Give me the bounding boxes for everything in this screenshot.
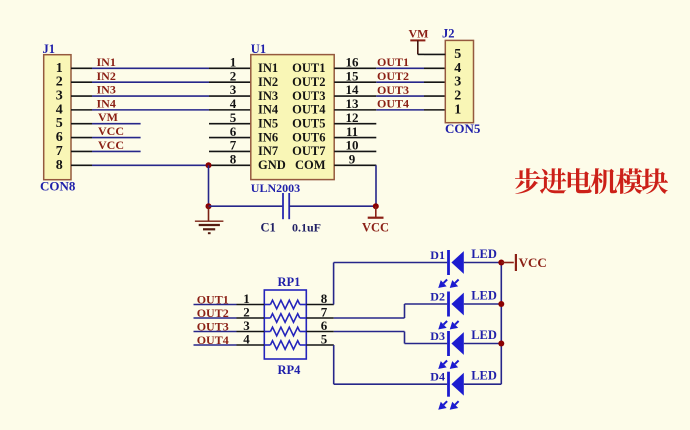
svg-text:OUT7: OUT7 [292, 144, 325, 158]
svg-text:RP1: RP1 [278, 275, 301, 289]
svg-text:OUT1: OUT1 [292, 61, 325, 75]
svg-text:4: 4 [230, 96, 237, 111]
svg-text:OUT3: OUT3 [377, 83, 409, 97]
svg-text:D3: D3 [430, 329, 445, 343]
svg-text:OUT1: OUT1 [197, 292, 229, 306]
svg-text:VCC: VCC [98, 124, 124, 138]
svg-text:IN5: IN5 [258, 117, 278, 131]
svg-text:VM: VM [409, 27, 429, 41]
svg-text:IN4: IN4 [97, 96, 116, 110]
svg-text:6: 6 [56, 130, 63, 145]
svg-text:CON8: CON8 [40, 179, 76, 194]
svg-text:LED: LED [471, 247, 497, 261]
svg-text:GND: GND [258, 158, 286, 172]
svg-text:IN6: IN6 [258, 130, 278, 144]
svg-text:5: 5 [454, 47, 461, 62]
svg-text:OUT1: OUT1 [377, 55, 409, 69]
svg-text:8: 8 [56, 158, 63, 173]
svg-text:5: 5 [230, 110, 237, 125]
svg-text:0.1uF: 0.1uF [292, 220, 321, 234]
svg-text:15: 15 [346, 68, 360, 83]
svg-text:IN1: IN1 [258, 61, 278, 75]
svg-text:16: 16 [346, 55, 360, 70]
svg-text:OUT6: OUT6 [292, 130, 325, 144]
svg-text:5: 5 [56, 116, 63, 131]
svg-text:IN3: IN3 [97, 83, 116, 97]
svg-text:IN4: IN4 [258, 103, 279, 117]
svg-text:VCC: VCC [98, 138, 124, 152]
svg-text:OUT2: OUT2 [377, 69, 409, 83]
svg-text:OUT2: OUT2 [292, 75, 325, 89]
svg-text:LED: LED [471, 288, 497, 302]
svg-text:OUT4: OUT4 [292, 103, 326, 117]
svg-text:OUT2: OUT2 [197, 306, 229, 320]
svg-text:3: 3 [230, 82, 237, 97]
svg-text:3: 3 [56, 89, 63, 104]
svg-text:IN1: IN1 [97, 55, 116, 69]
svg-text:2: 2 [230, 68, 237, 83]
svg-text:8: 8 [230, 151, 237, 166]
svg-text:4: 4 [454, 61, 461, 76]
svg-text:D2: D2 [430, 289, 445, 303]
svg-text:13: 13 [346, 96, 360, 111]
svg-text:CON5: CON5 [445, 121, 481, 136]
svg-text:RP4: RP4 [278, 363, 302, 377]
svg-text:9: 9 [349, 151, 356, 166]
svg-text:OUT4: OUT4 [377, 97, 409, 111]
svg-text:OUT4: OUT4 [197, 333, 229, 347]
svg-text:J1: J1 [43, 42, 56, 56]
svg-text:1: 1 [56, 61, 63, 76]
svg-text:VCC: VCC [519, 255, 547, 270]
svg-text:1: 1 [454, 102, 461, 117]
svg-text:VM: VM [98, 110, 118, 124]
svg-text:D1: D1 [430, 248, 445, 262]
svg-text:COM: COM [295, 158, 326, 172]
svg-text:J2: J2 [442, 26, 455, 40]
svg-text:12: 12 [346, 110, 359, 125]
svg-text:7: 7 [56, 144, 63, 159]
svg-text:OUT3: OUT3 [292, 89, 325, 103]
svg-text:ULN2003: ULN2003 [251, 181, 300, 195]
svg-text:5: 5 [321, 332, 328, 347]
svg-text:OUT5: OUT5 [292, 117, 325, 131]
svg-text:IN7: IN7 [258, 144, 278, 158]
svg-text:11: 11 [346, 124, 358, 139]
svg-text:VCC: VCC [362, 220, 389, 234]
svg-text:D4: D4 [430, 370, 445, 384]
svg-text:1: 1 [230, 55, 237, 70]
svg-text:LED: LED [471, 369, 497, 383]
svg-text:IN3: IN3 [258, 89, 278, 103]
svg-text:2: 2 [454, 89, 461, 104]
svg-text:4: 4 [243, 332, 250, 347]
svg-text:6: 6 [230, 124, 237, 139]
svg-text:LED: LED [471, 328, 497, 342]
svg-text:U1: U1 [251, 42, 266, 56]
svg-text:3: 3 [454, 75, 461, 90]
svg-text:IN2: IN2 [97, 69, 116, 83]
svg-text:C1: C1 [261, 220, 276, 234]
svg-text:OUT3: OUT3 [197, 319, 229, 333]
svg-text:2: 2 [56, 75, 63, 90]
svg-text:7: 7 [230, 138, 237, 153]
svg-text:IN2: IN2 [258, 75, 278, 89]
svg-text:14: 14 [346, 82, 360, 97]
svg-text:10: 10 [346, 138, 359, 153]
svg-text:4: 4 [56, 102, 63, 117]
